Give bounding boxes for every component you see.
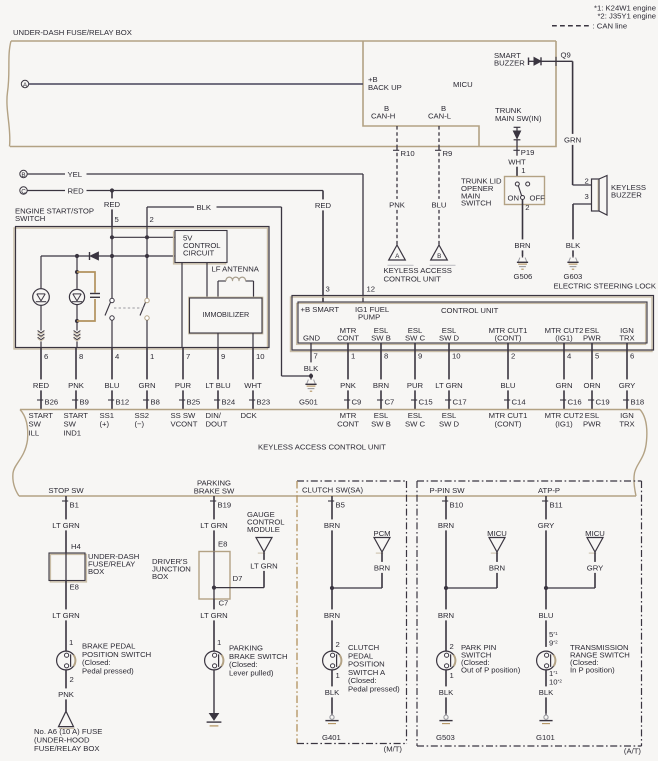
svg-text:BRN: BRN <box>324 611 340 620</box>
svg-text:DIN/: DIN/ <box>206 411 222 420</box>
svg-text:12: 12 <box>367 285 376 294</box>
svg-text:SS1: SS1 <box>100 411 115 420</box>
wire pin4 lower leg <box>111 320 113 347</box>
svg-text:BLK: BLK <box>439 688 454 697</box>
svg-text:B23: B23 <box>257 398 271 407</box>
svg-text:B12: B12 <box>116 398 130 407</box>
svg-text:R10: R10 <box>401 149 415 158</box>
svg-text:BLU: BLU <box>539 611 554 620</box>
svg-text:10: 10 <box>256 352 265 361</box>
svg-text:E8: E8 <box>70 583 79 592</box>
svg-text:(IG1): (IG1) <box>555 334 573 343</box>
svg-text:CONTROL UNIT: CONTROL UNIT <box>441 306 499 315</box>
svg-text:C7: C7 <box>385 398 395 407</box>
svg-text:BLK: BLK <box>304 364 319 373</box>
svg-text:MICU: MICU <box>453 80 473 89</box>
svg-text:RED: RED <box>315 201 332 210</box>
svg-text:ORN: ORN <box>583 381 600 390</box>
svg-text:5: 5 <box>115 215 119 224</box>
svg-text:7: 7 <box>314 352 318 361</box>
clutch pedal position switch SW4 <box>323 651 342 670</box>
svg-text:SW C: SW C <box>405 419 426 428</box>
parking brake switch SW3 <box>205 651 224 670</box>
connector tick R9 <box>435 149 441 151</box>
connector triangle PCM <box>374 538 390 553</box>
wire ESL pin 2 (BLU) to connector C14 <box>507 343 509 379</box>
svg-text:BLK: BLK <box>539 688 554 697</box>
svg-text:SWITCH: SWITCH <box>15 214 45 223</box>
svg-text:LT BLU: LT BLU <box>205 381 230 390</box>
wire ESL pin 10 (LT GRN) to connector C17 <box>448 343 450 379</box>
svg-text:MAIN SW(IN): MAIN SW(IN) <box>495 114 542 123</box>
svg-text:*2: J35Y1 engine: *2: J35Y1 engine <box>597 11 656 20</box>
wire BLK to G101 <box>545 670 547 687</box>
trunk lid opener main switch SW1 <box>505 177 545 205</box>
svg-text:DOUT: DOUT <box>206 420 228 429</box>
wire diode rail <box>41 255 90 257</box>
M/T dash-dot box (clutch switch) <box>297 480 407 482</box>
svg-text:B19: B19 <box>218 501 232 510</box>
ground G401 <box>331 713 333 715</box>
ground G603 <box>572 256 574 258</box>
wire 5V to pin 7 <box>181 263 183 348</box>
junction clutch branch <box>330 586 334 590</box>
electric steering lock outer box <box>291 297 653 352</box>
diode D1 smart buzzer <box>528 58 530 66</box>
svg-text:BRN: BRN <box>373 381 389 390</box>
svg-text:CONTROL UNIT: CONTROL UNIT <box>384 274 442 283</box>
wire ESL pin 5 (ORN) to connector C19 <box>591 343 593 379</box>
svg-text:(−): (−) <box>135 420 145 429</box>
under-dash fuse/relay box (H4-E8) <box>50 554 86 582</box>
svg-text:3: 3 <box>326 285 330 294</box>
svg-text:C17: C17 <box>453 398 467 407</box>
svg-text:2: 2 <box>511 352 515 361</box>
svg-text:ILL: ILL <box>29 428 40 437</box>
svg-text:2: 2 <box>450 642 454 651</box>
svg-text:Pedal pressed): Pedal pressed) <box>82 666 134 675</box>
wire 5V to immobilizer <box>206 263 208 299</box>
svg-text:2: 2 <box>585 177 589 186</box>
wire RED node C to ESL pin 3 <box>27 190 65 192</box>
svg-text:B18: B18 <box>631 398 645 407</box>
svg-text:PNK: PNK <box>389 201 406 210</box>
wire immobilizer to pin 10 <box>252 333 254 348</box>
svg-text:(A/T): (A/T) <box>624 747 642 756</box>
svg-text:PNK: PNK <box>68 381 85 390</box>
wire BRN PCM stub <box>381 552 383 562</box>
svg-text:A: A <box>23 82 28 89</box>
svg-text:C9: C9 <box>352 398 362 407</box>
svg-text:CONT: CONT <box>337 334 359 343</box>
junction <box>145 235 149 239</box>
svg-text:G503: G503 <box>436 733 455 742</box>
connector triangle A <box>389 245 406 260</box>
svg-text:BLK: BLK <box>566 241 581 250</box>
wire PNK to fuse A6 <box>65 670 67 689</box>
connector triangle MICU (P-PIN) <box>489 538 505 553</box>
connector tick R10 <box>393 149 399 151</box>
svg-text:SS SW: SS SW <box>171 411 197 420</box>
diode D2 engine switch <box>89 252 91 260</box>
svg-text:PWR: PWR <box>583 419 601 428</box>
svg-text:UNDER-DASH FUSE/RELAY BOX: UNDER-DASH FUSE/RELAY BOX <box>13 28 132 37</box>
wire BRN MICU stub (P-PIN) <box>496 552 498 562</box>
under-dash fuse/relay box <box>11 40 556 42</box>
ground G503 <box>445 713 447 715</box>
svg-text:B24: B24 <box>222 398 236 407</box>
svg-text:1: 1 <box>150 352 154 361</box>
wire ESL pin 4 (GRN) to connector C16 <box>563 343 565 379</box>
svg-text:6: 6 <box>44 352 48 361</box>
node A <box>21 80 28 87</box>
ESL control unit inner box <box>297 303 646 344</box>
MICU box <box>363 41 556 147</box>
connector triangle fuse A6 <box>59 711 74 726</box>
svg-text:7: 7 <box>186 352 190 361</box>
wire BLK engine switch pin 2 to G501 junction <box>146 207 148 227</box>
svg-text:1: 1 <box>69 638 73 647</box>
svg-text:GRY: GRY <box>538 521 555 530</box>
svg-text:CIRCUIT: CIRCUIT <box>183 249 214 258</box>
svg-text:B8: B8 <box>151 398 160 407</box>
inductor LF antenna coil <box>217 281 219 298</box>
dashed CAN wire R10 to keyless triangle A <box>396 126 398 147</box>
junction <box>110 235 114 239</box>
svg-text:: CAN line: : CAN line <box>593 21 628 30</box>
svg-text:SW D: SW D <box>439 334 460 343</box>
5V control circuit U2 <box>174 232 226 264</box>
svg-text:PWR: PWR <box>583 334 601 343</box>
wire BLK to G401 <box>331 670 333 687</box>
svg-text:P-PIN SW: P-PIN SW <box>429 486 465 495</box>
svg-text:MICU: MICU <box>487 529 507 538</box>
wire parking brake switch to ground <box>213 670 215 714</box>
wire BLU to transmission range switch <box>545 588 547 609</box>
svg-text:8: 8 <box>384 352 388 361</box>
svg-text:BLU: BLU <box>432 201 447 210</box>
svg-text:G506: G506 <box>514 272 533 281</box>
svg-text:BLU: BLU <box>501 381 516 390</box>
svg-text:B10: B10 <box>450 501 464 510</box>
svg-text:RED: RED <box>104 200 121 209</box>
wire RED down to ESL +B SMART pin 3 <box>322 191 324 200</box>
svg-text:A: A <box>395 253 400 260</box>
svg-text:1: 1 <box>521 166 525 175</box>
dashed CAN wire R9 to keyless triangle B <box>438 126 440 147</box>
svg-text:LF ANTENNA: LF ANTENNA <box>212 265 260 274</box>
svg-text:Q9: Q9 <box>561 51 571 60</box>
svg-text:Out of P position): Out of P position) <box>461 666 521 675</box>
junction <box>75 319 79 323</box>
svg-text:YEL: YEL <box>68 170 83 179</box>
svg-text:B26: B26 <box>45 398 59 407</box>
capacitor C1 branch <box>77 272 95 293</box>
wire ESL pin 1 (PNK) to connector C9 <box>347 343 349 379</box>
svg-text:BUZZER: BUZZER <box>494 59 525 68</box>
svg-text:B25: B25 <box>187 398 201 407</box>
svg-text:SW: SW <box>29 420 42 429</box>
svg-text:6: 6 <box>630 352 634 361</box>
svg-text:In P position): In P position) <box>570 666 615 675</box>
ground G501 <box>310 378 312 380</box>
wire PARKING BRAKE SW B19 branch <box>210 500 216 502</box>
svg-text:BOX: BOX <box>88 567 104 576</box>
svg-text:G401: G401 <box>322 733 341 742</box>
resistor R-L2 <box>74 331 81 333</box>
svg-text:LT GRN: LT GRN <box>200 521 227 530</box>
svg-text:VCONT: VCONT <box>171 420 198 429</box>
svg-text:1: 1 <box>336 671 340 680</box>
wire diode to Q9 corner <box>541 60 573 62</box>
svg-text:LT GRN: LT GRN <box>52 611 79 620</box>
wire ESL pin 9 (PUR) to connector C15 <box>414 343 416 379</box>
park pin switch SW5 <box>437 651 456 670</box>
svg-text:MODULE: MODULE <box>247 525 280 534</box>
svg-text:LT GRN: LT GRN <box>250 562 277 571</box>
wire LT GRN to brake pedal position switch <box>65 581 67 610</box>
svg-text:C19: C19 <box>596 398 610 407</box>
immobilizer U3 <box>190 298 263 333</box>
wire legend dashed sample (CAN line) <box>552 25 589 27</box>
svg-text:5: 5 <box>595 352 599 361</box>
svg-text:B11: B11 <box>550 501 563 510</box>
svg-text:BRN: BRN <box>438 521 454 530</box>
wire YEL node B to ESL pin 12 <box>27 173 65 175</box>
svg-text:2: 2 <box>336 640 340 649</box>
svg-text:(IG1): (IG1) <box>555 419 573 428</box>
svg-text:10: 10 <box>452 352 461 361</box>
svg-text:C7: C7 <box>219 599 229 608</box>
svg-text:Lever pulled): Lever pulled) <box>229 668 274 677</box>
terminal Q9 tick <box>555 57 557 66</box>
node C <box>20 187 27 194</box>
connector triangle gauge control module <box>256 538 272 553</box>
svg-text:GRY: GRY <box>619 381 636 390</box>
wire BRN to clutch pedal position switch <box>331 588 333 609</box>
svg-text:BOX: BOX <box>152 572 168 581</box>
junction <box>110 254 114 258</box>
svg-text:SWITCH: SWITCH <box>461 199 491 208</box>
svg-text:(CONT): (CONT) <box>495 419 522 428</box>
svg-text:4: 4 <box>115 352 120 361</box>
svg-text:RED: RED <box>68 187 85 196</box>
svg-text:B1: B1 <box>70 501 79 510</box>
wire internal bus to 5V control circuit <box>112 236 175 238</box>
wire pin1 lower leg <box>146 320 148 347</box>
svg-text:LT GRN: LT GRN <box>200 611 227 620</box>
svg-text:BLK: BLK <box>325 688 340 697</box>
wire switch leg pin5-pin4 <box>111 227 113 299</box>
svg-text:ON: ON <box>508 193 520 202</box>
svg-text:LT GRN: LT GRN <box>52 521 79 530</box>
svg-text:WHT: WHT <box>508 157 526 166</box>
svg-text:8: 8 <box>79 352 83 361</box>
svg-text:SW B: SW B <box>371 334 391 343</box>
svg-text:G603: G603 <box>564 272 583 281</box>
keyless buzzer BZ1 <box>592 179 600 211</box>
svg-text:BLK: BLK <box>197 203 212 212</box>
ground G506 <box>522 256 524 258</box>
svg-text:BACK UP: BACK UP <box>368 83 402 92</box>
lamp L1 start sw ill <box>40 256 42 289</box>
svg-text:C14: C14 <box>512 398 527 407</box>
connector ticks B26 B9 B12 B8 B25 B24 B23 <box>37 399 43 401</box>
svg-text:BRN: BRN <box>514 241 530 250</box>
svg-text:SW C: SW C <box>405 334 426 343</box>
svg-text:(CONT): (CONT) <box>495 334 522 343</box>
svg-text:IMMOBILIZER: IMMOBILIZER <box>203 310 250 319</box>
junction ATP branch <box>544 586 548 590</box>
svg-text:WHT: WHT <box>244 381 262 390</box>
svg-text:B9: B9 <box>80 398 89 407</box>
svg-text:Pedal pressed): Pedal pressed) <box>348 685 400 694</box>
svg-text:GND: GND <box>303 334 321 343</box>
wire BRN to park pin switch <box>445 588 447 609</box>
node B <box>20 170 27 177</box>
junction <box>145 254 149 258</box>
svg-text:C: C <box>21 188 26 195</box>
svg-text:G101: G101 <box>536 733 555 742</box>
svg-text:GRN: GRN <box>138 381 155 390</box>
svg-text:2: 2 <box>150 215 154 224</box>
wire trunk main switch to P19 <box>516 140 518 155</box>
svg-text:G501: G501 <box>299 398 318 407</box>
resistor R-L1 <box>38 331 45 333</box>
wire BRN trunk switch to G506 <box>522 200 524 240</box>
svg-text:PUMP: PUMP <box>358 313 380 322</box>
wire D7 to gauge control module <box>214 587 264 589</box>
wire ESL pin 6 (GRY) to connector B18 <box>626 343 628 379</box>
svg-text:START: START <box>29 411 54 420</box>
svg-text:STOP SW: STOP SW <box>48 486 84 495</box>
junction <box>75 270 79 274</box>
svg-text:D7: D7 <box>233 574 243 583</box>
wire ATP-P B11 branch <box>542 500 548 502</box>
svg-text:SW B: SW B <box>371 419 391 428</box>
wire keyless buzzer pin 3 to G603 <box>573 203 592 205</box>
switch contacts SS1 <box>110 298 114 302</box>
svg-text:3: 3 <box>585 192 589 201</box>
svg-text:1: 1 <box>351 352 355 361</box>
svg-text:TRX: TRX <box>619 334 634 343</box>
wire immobilizer to pin 9 <box>217 333 219 348</box>
svg-text:BRAKE SW: BRAKE SW <box>194 486 235 495</box>
svg-text:SW D: SW D <box>439 419 460 428</box>
wire GRN down to keyless buzzer pin 2 <box>572 61 574 134</box>
svg-text:+B SMART: +B SMART <box>301 305 340 314</box>
engine start/stop switch box <box>14 228 268 349</box>
svg-text:IND1: IND1 <box>64 428 82 437</box>
svg-text:BRN: BRN <box>324 521 340 530</box>
svg-text:2: 2 <box>525 203 529 212</box>
junction RED branch <box>110 188 114 192</box>
trunk main switch arrow symbol <box>514 126 521 128</box>
brake pedal position switch SW2 <box>57 651 76 670</box>
wire P-PIN SW B10 branch <box>442 500 448 502</box>
svg-text:GRY: GRY <box>587 564 604 573</box>
svg-text:BRN: BRN <box>374 564 390 573</box>
svg-text:C15: C15 <box>419 398 433 407</box>
wire ESL pin 8 (BRN) to connector C7 <box>380 343 382 379</box>
wire STOP SW B1 branch <box>62 500 68 502</box>
transmission range switch SW6 <box>537 651 556 670</box>
svg-text:FUSE/RELAY BOX: FUSE/RELAY BOX <box>34 744 100 753</box>
junction D7 <box>212 586 216 590</box>
svg-text:BUZZER: BUZZER <box>611 191 642 200</box>
svg-text:PCM: PCM <box>373 529 390 538</box>
wires engine switch pins to keyless access control unit <box>40 348 42 380</box>
svg-text:1: 1 <box>217 638 221 647</box>
svg-text:E8: E8 <box>218 540 227 549</box>
svg-text:DCK: DCK <box>241 411 258 420</box>
svg-text:BLU: BLU <box>105 381 120 390</box>
wire CLUTCH SW B5 branch <box>328 500 334 502</box>
svg-text:CAN-L: CAN-L <box>428 112 452 121</box>
svg-text:4: 4 <box>567 352 572 361</box>
svg-text:TRX: TRX <box>619 419 634 428</box>
wire GND pin 7 to G501 <box>310 343 312 362</box>
wire WHT to trunk lid opener switch pin 1 <box>516 154 518 157</box>
svg-text:PNK: PNK <box>58 690 75 699</box>
driver's junction box <box>199 552 230 600</box>
svg-text:9: 9 <box>221 352 225 361</box>
svg-text:R9: R9 <box>443 149 453 158</box>
svg-text:P19: P19 <box>521 148 535 157</box>
wire switch leg pin2-pin1 <box>146 227 148 299</box>
lamp L2 start sw ind <box>76 256 78 289</box>
connector triangle B <box>431 245 448 260</box>
svg-text:B: B <box>437 253 441 260</box>
svg-text:LT GRN: LT GRN <box>435 381 462 390</box>
ground (parking brake switch) <box>210 714 219 721</box>
svg-text:KEYLESS ACCESS CONTROL UNIT: KEYLESS ACCESS CONTROL UNIT <box>258 443 386 452</box>
wire BLK to G503 <box>445 670 447 687</box>
terminal P19 tick <box>513 149 519 151</box>
svg-text:PNK: PNK <box>340 381 357 390</box>
svg-text:CAN-H: CAN-H <box>371 112 395 121</box>
wire LT GRN gauge module stub <box>263 552 265 560</box>
svg-text:B: B <box>21 172 25 179</box>
svg-text:C16: C16 <box>568 398 582 407</box>
svg-text:ATP-P: ATP-P <box>538 486 560 495</box>
svg-text:OFF: OFF <box>530 193 546 202</box>
svg-text:BRN: BRN <box>489 564 505 573</box>
keyless access control unit box <box>20 409 640 411</box>
svg-text:SW: SW <box>64 420 77 429</box>
wire LT GRN to parking brake switch <box>213 599 215 609</box>
svg-text:9: 9 <box>418 352 422 361</box>
switch link dashed <box>114 307 144 309</box>
svg-text:SS2: SS2 <box>135 411 150 420</box>
svg-text:PUR: PUR <box>407 381 424 390</box>
svg-text:2: 2 <box>70 675 74 684</box>
svg-text:START: START <box>64 411 89 420</box>
wire RED down to engine switch pin 5 <box>111 191 113 199</box>
svg-text:RED: RED <box>33 381 50 390</box>
svg-text:BRN: BRN <box>438 611 454 620</box>
svg-text:GRN: GRN <box>564 136 581 145</box>
switch contacts SS2 <box>145 298 149 302</box>
junction P-PIN branch <box>444 586 448 590</box>
wire GRY MICU stub (ATP) <box>594 552 596 562</box>
junction <box>75 254 79 258</box>
svg-text:(+): (+) <box>100 420 110 429</box>
svg-text:1: 1 <box>450 671 454 680</box>
svg-text:CONT: CONT <box>337 419 359 428</box>
svg-text:ELECTRIC STEERING LOCK: ELECTRIC STEERING LOCK <box>553 282 656 291</box>
svg-text:PUR: PUR <box>175 381 192 390</box>
